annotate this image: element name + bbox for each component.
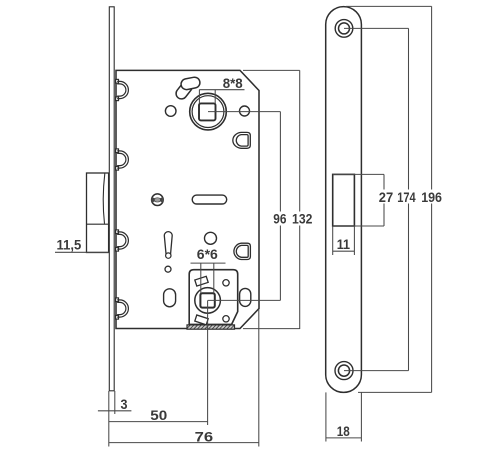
svg-text:174: 174	[397, 189, 416, 205]
svg-text:11,5: 11,5	[57, 237, 82, 253]
svg-text:27: 27	[379, 189, 394, 205]
svg-text:50: 50	[150, 407, 167, 423]
svg-text:11: 11	[337, 236, 350, 252]
svg-text:18: 18	[337, 423, 350, 439]
svg-text:96: 96	[273, 211, 286, 227]
svg-text:6*6: 6*6	[197, 246, 218, 262]
svg-text:8*8: 8*8	[223, 75, 243, 91]
svg-text:196: 196	[421, 189, 442, 205]
svg-text:3: 3	[121, 396, 128, 412]
svg-text:76: 76	[195, 428, 214, 444]
svg-text:132: 132	[292, 211, 312, 227]
